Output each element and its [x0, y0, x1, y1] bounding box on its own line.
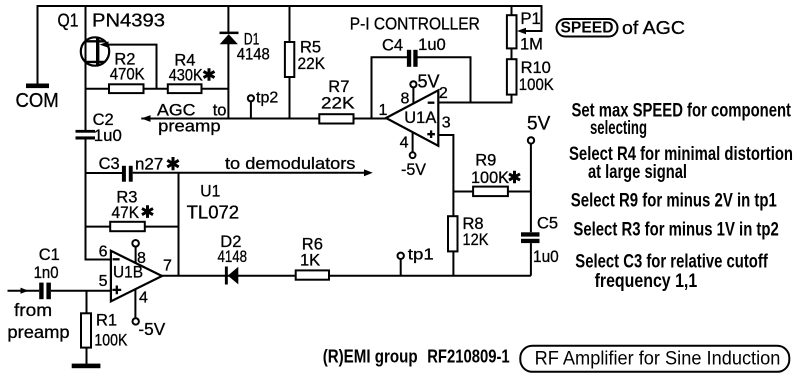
svg-text:C3: C3 — [99, 155, 120, 173]
svg-text:R6: R6 — [302, 235, 323, 253]
svg-text:R10: R10 — [521, 59, 551, 77]
svg-text:100K: 100K — [94, 331, 127, 349]
svg-text:P1: P1 — [521, 10, 541, 28]
svg-text:R7: R7 — [328, 78, 349, 96]
svg-text:8: 8 — [137, 250, 146, 267]
svg-text:5V: 5V — [418, 72, 440, 92]
svg-text:COM: COM — [16, 90, 59, 112]
svg-text:RF210809-1: RF210809-1 — [427, 346, 510, 367]
svg-text:SPEED: SPEED — [561, 19, 614, 36]
svg-text:100K: 100K — [519, 76, 554, 94]
svg-text:R5: R5 — [300, 39, 321, 57]
svg-text:of AGC: of AGC — [622, 17, 685, 38]
svg-text:to demodulators: to demodulators — [225, 155, 355, 173]
svg-text:preamp: preamp — [158, 117, 220, 135]
svg-text:selecting: selecting — [590, 118, 647, 139]
svg-text:R1: R1 — [96, 312, 117, 330]
svg-text:1M: 1M — [520, 36, 543, 54]
svg-text:1u0: 1u0 — [533, 248, 559, 266]
svg-text:2: 2 — [439, 85, 448, 102]
svg-text:P-I CONTROLLER: P-I CONTROLLER — [350, 13, 480, 33]
svg-text:-5V: -5V — [138, 319, 165, 339]
svg-text:1u0: 1u0 — [418, 36, 446, 54]
svg-text:5V: 5V — [527, 113, 551, 134]
svg-text:at large signal: at large signal — [588, 162, 687, 183]
svg-text:-5V: -5V — [401, 161, 426, 179]
svg-text:C4: C4 — [382, 37, 403, 55]
svg-text:from: from — [14, 300, 52, 320]
svg-text:frequency 1,1: frequency 1,1 — [595, 271, 698, 292]
svg-text:tp2: tp2 — [256, 90, 278, 107]
svg-text:U1: U1 — [200, 182, 220, 200]
svg-text:22K: 22K — [321, 95, 355, 113]
svg-text:preamp: preamp — [7, 322, 69, 342]
svg-text:PN4393: PN4393 — [92, 10, 165, 31]
svg-text:470K: 470K — [110, 66, 145, 84]
svg-text:Select R9 for minus 2V in tp1: Select R9 for minus 2V in tp1 — [571, 191, 777, 212]
svg-text:4148: 4148 — [237, 46, 270, 64]
svg-text:8: 8 — [401, 90, 410, 107]
svg-text:7: 7 — [163, 258, 172, 275]
svg-text:Select C3 for relative cutoff: Select C3 for relative cutoff — [575, 252, 768, 273]
svg-text:TL072: TL072 — [187, 203, 240, 223]
svg-text:12K: 12K — [463, 231, 489, 249]
svg-text:22K: 22K — [298, 55, 326, 73]
svg-text:4: 4 — [139, 289, 148, 306]
svg-text:Select R3 for minus 1V in tp2: Select R3 for minus 1V in tp2 — [573, 220, 778, 241]
svg-text:4: 4 — [400, 134, 409, 151]
svg-text:U1A: U1A — [404, 109, 436, 127]
svg-text:4148: 4148 — [218, 248, 248, 266]
svg-text:6: 6 — [99, 243, 108, 260]
svg-text:RF Amplifier for Sine Inductio: RF Amplifier for Sine Induction — [535, 348, 781, 370]
svg-text:3: 3 — [442, 115, 451, 132]
svg-text:R9: R9 — [475, 151, 496, 169]
svg-text:1n0: 1n0 — [34, 264, 59, 282]
svg-text:100K: 100K — [471, 169, 509, 187]
svg-text:(R)EMI group: (R)EMI group — [323, 346, 418, 367]
svg-text:C5: C5 — [537, 214, 558, 232]
svg-text:1u0: 1u0 — [94, 127, 122, 145]
svg-text:Q1: Q1 — [58, 10, 79, 31]
svg-text:5: 5 — [99, 273, 108, 290]
svg-text:1K: 1K — [300, 252, 320, 270]
svg-text:C1: C1 — [39, 246, 60, 264]
svg-text:n27: n27 — [135, 155, 163, 173]
svg-text:47K: 47K — [112, 204, 140, 222]
svg-text:1: 1 — [379, 102, 388, 119]
svg-text:430K: 430K — [169, 67, 203, 85]
svg-text:tp1: tp1 — [408, 247, 434, 264]
